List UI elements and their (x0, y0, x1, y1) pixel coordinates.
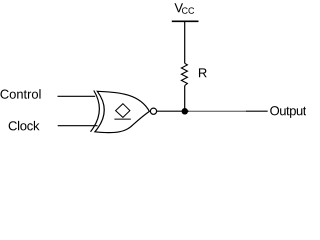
inverter bubble on gate output (150, 108, 156, 114)
resistor R value label (199, 68, 207, 77)
wire gate output to node (157, 110, 189, 112)
power rail Vcc bar (172, 20, 199, 22)
wire resistor to output node (184, 86, 186, 112)
wire Clock input (58, 125, 98, 127)
node Clock label (9, 121, 40, 131)
XNOR gate U1 extra input arc (91, 91, 100, 132)
wire node to output (light segment) (189, 110, 246, 112)
power rail Vcc label (174, 3, 183, 12)
XNOR gate U1 body (95, 91, 149, 132)
wire Control input (58, 95, 96, 97)
node Output label (270, 106, 306, 118)
open-drain underline (114, 118, 130, 120)
junction dot (182, 108, 189, 115)
wire Vcc to resistor (184, 21, 186, 63)
node Control label (0, 89, 40, 99)
open-drain diamond symbol (116, 104, 130, 118)
wire to Output label (246, 110, 268, 112)
resistor R zigzag (181, 63, 187, 85)
